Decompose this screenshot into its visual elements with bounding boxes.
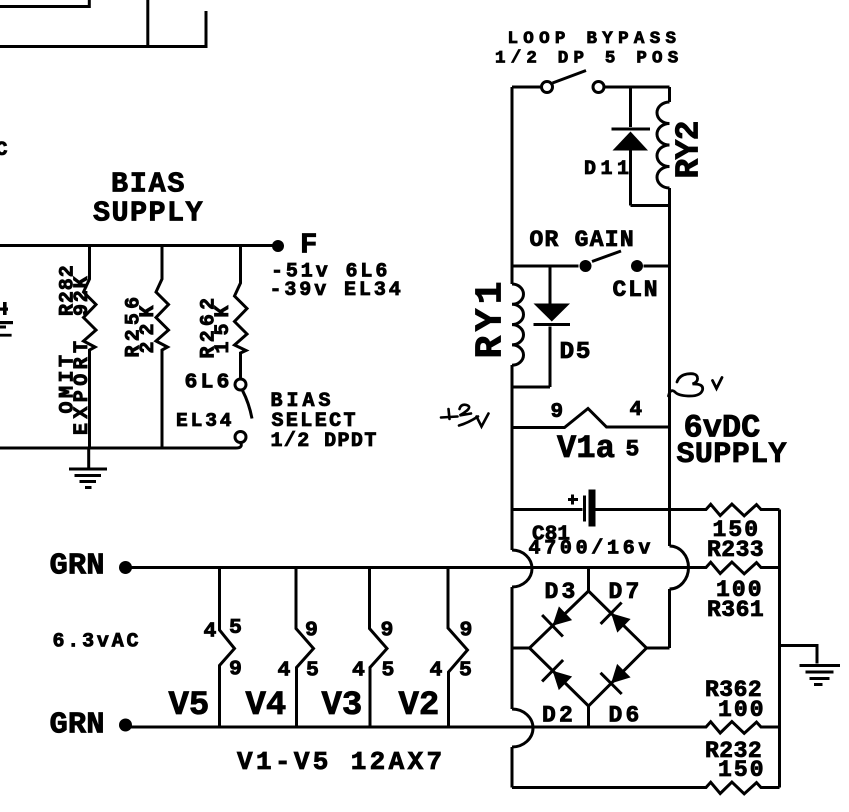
svg-text:4: 4 bbox=[630, 399, 643, 422]
svg-text:5: 5 bbox=[306, 659, 319, 683]
svg-text:4: 4 bbox=[204, 620, 217, 644]
svg-text:4: 4 bbox=[352, 659, 365, 683]
svg-text:F: F bbox=[300, 229, 317, 262]
svg-text:15K: 15K bbox=[212, 299, 235, 353]
svg-text:V1-V5 12AX7: V1-V5 12AX7 bbox=[237, 747, 445, 777]
svg-text:D5: D5 bbox=[560, 339, 593, 366]
svg-text:6.3vAC: 6.3vAC bbox=[53, 631, 142, 654]
svg-text:D2: D2 bbox=[542, 703, 576, 729]
svg-text:V2: V2 bbox=[399, 687, 440, 725]
svg-text:D11: D11 bbox=[584, 158, 634, 181]
svg-text:1/2 DPDT: 1/2 DPDT bbox=[271, 430, 378, 453]
svg-text:V5: V5 bbox=[169, 687, 210, 725]
svg-text:4700/16v: 4700/16v bbox=[529, 538, 655, 561]
svg-text:9: 9 bbox=[381, 619, 394, 643]
svg-text:RY2: RY2 bbox=[671, 121, 708, 178]
svg-text:D3: D3 bbox=[545, 579, 579, 605]
svg-text:C: C bbox=[0, 139, 8, 162]
svg-text:OR GAIN: OR GAIN bbox=[530, 227, 635, 253]
svg-text:1/2 DP 5 POS: 1/2 DP 5 POS bbox=[495, 49, 683, 69]
svg-text:CLN: CLN bbox=[613, 277, 660, 303]
svg-text:SUPPLY: SUPPLY bbox=[677, 438, 787, 472]
svg-text:5: 5 bbox=[459, 659, 472, 683]
svg-text:9: 9 bbox=[460, 619, 473, 643]
svg-text:SUPPLY: SUPPLY bbox=[93, 197, 204, 230]
svg-text:R361: R361 bbox=[707, 597, 764, 623]
svg-text:V3: V3 bbox=[322, 687, 363, 725]
svg-text:100: 100 bbox=[718, 697, 766, 723]
svg-text:D7: D7 bbox=[609, 579, 643, 605]
svg-text:V4: V4 bbox=[246, 687, 287, 725]
svg-text:EL34: EL34 bbox=[176, 410, 234, 432]
svg-text:150: 150 bbox=[718, 757, 766, 783]
svg-text:9: 9 bbox=[229, 658, 242, 682]
svg-text:4: 4 bbox=[430, 659, 443, 683]
svg-text:9: 9 bbox=[551, 401, 564, 424]
svg-text:D6: D6 bbox=[609, 703, 643, 729]
svg-text:V1a: V1a bbox=[557, 430, 615, 467]
svg-text:6L6: 6L6 bbox=[185, 371, 233, 395]
svg-text:R233: R233 bbox=[707, 537, 764, 563]
svg-text:GRN: GRN bbox=[50, 709, 105, 743]
svg-text:RY1: RY1 bbox=[470, 277, 513, 358]
svg-text:5: 5 bbox=[382, 659, 395, 683]
svg-text:EXPORT: EXPORT bbox=[71, 337, 94, 435]
svg-text:-39v EL34: -39v EL34 bbox=[270, 279, 404, 302]
svg-text:GRN: GRN bbox=[50, 550, 105, 584]
svg-text:92K: 92K bbox=[71, 275, 94, 316]
svg-text:9: 9 bbox=[305, 619, 318, 643]
svg-text:4: 4 bbox=[278, 659, 291, 683]
svg-text:LOOP BYPASS: LOOP BYPASS bbox=[508, 29, 682, 49]
svg-text:5: 5 bbox=[626, 437, 640, 463]
svg-text:5: 5 bbox=[229, 616, 242, 640]
svg-text:22K: 22K bbox=[137, 299, 160, 353]
